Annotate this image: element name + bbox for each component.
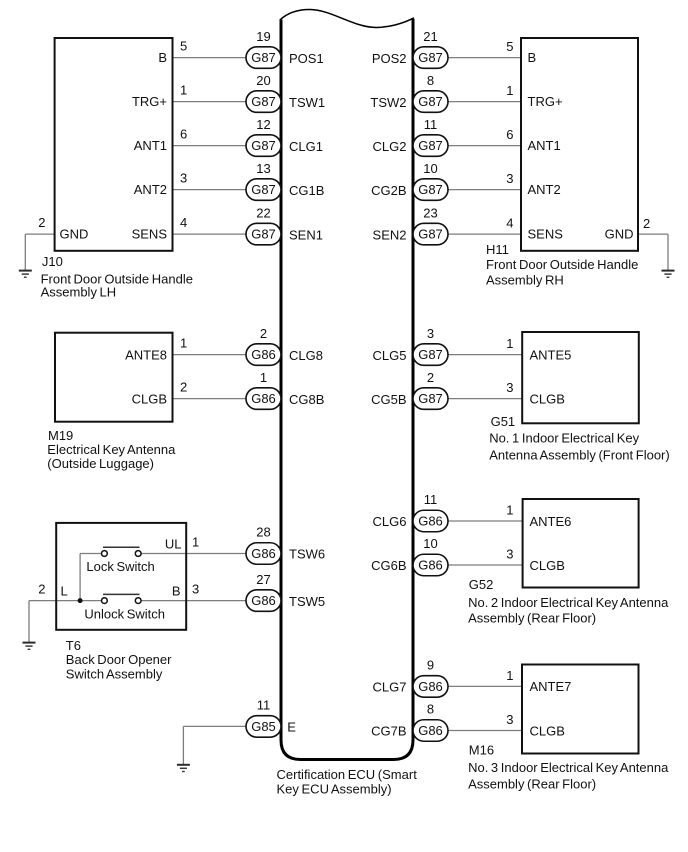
svg-text:G87: G87 xyxy=(251,94,276,109)
svg-text:1: 1 xyxy=(506,668,513,683)
svg-text:27: 27 xyxy=(256,572,270,587)
svg-text:Assembly (Rear Floor): Assembly (Rear Floor) xyxy=(468,611,596,626)
svg-text:Key ECU Assembly): Key ECU Assembly) xyxy=(277,782,392,797)
svg-text:G86: G86 xyxy=(251,391,276,406)
svg-text:H11: H11 xyxy=(486,242,509,257)
svg-text:3: 3 xyxy=(506,171,513,186)
svg-text:1: 1 xyxy=(260,370,267,385)
svg-text:G86: G86 xyxy=(251,347,276,362)
svg-text:13: 13 xyxy=(256,161,270,176)
svg-text:No. 1 Indoor Electrical Key: No. 1 Indoor Electrical Key xyxy=(489,431,639,446)
svg-text:G85: G85 xyxy=(251,719,276,734)
svg-text:Front Door Outside Handle: Front Door Outside Handle xyxy=(486,257,638,272)
svg-text:B: B xyxy=(158,50,167,65)
svg-text:TRG+: TRG+ xyxy=(132,94,167,109)
svg-text:1: 1 xyxy=(192,534,199,549)
svg-text:G87: G87 xyxy=(418,50,443,65)
svg-text:1: 1 xyxy=(506,503,513,518)
svg-text:2: 2 xyxy=(427,370,434,385)
svg-text:B: B xyxy=(172,584,181,599)
svg-text:POS2: POS2 xyxy=(372,51,407,66)
svg-text:28: 28 xyxy=(256,525,270,540)
svg-text:CLGB: CLGB xyxy=(132,391,167,406)
svg-text:Assembly (Rear Floor): Assembly (Rear Floor) xyxy=(468,777,596,792)
svg-text:3: 3 xyxy=(506,380,513,395)
svg-text:No. 2 Indoor Electrical Key An: No. 2 Indoor Electrical Key Antenna xyxy=(468,595,669,610)
svg-text:ANTE8: ANTE8 xyxy=(125,347,167,362)
svg-text:12: 12 xyxy=(256,117,270,132)
svg-text:G87: G87 xyxy=(418,138,443,153)
svg-text:CG7B: CG7B xyxy=(371,724,406,739)
svg-text:G87: G87 xyxy=(251,138,276,153)
svg-text:CLG8: CLG8 xyxy=(289,348,323,363)
svg-text:ANT1: ANT1 xyxy=(528,138,561,153)
svg-text:CLGB: CLGB xyxy=(530,391,565,406)
svg-text:ANT2: ANT2 xyxy=(134,182,167,197)
svg-text:6: 6 xyxy=(506,127,513,142)
svg-text:G86: G86 xyxy=(251,546,276,561)
svg-text:CLG7: CLG7 xyxy=(373,680,407,695)
svg-text:G87: G87 xyxy=(251,182,276,197)
svg-text:3: 3 xyxy=(506,547,513,562)
svg-text:TSW1: TSW1 xyxy=(289,95,325,110)
svg-text:E: E xyxy=(287,720,296,735)
svg-text:G86: G86 xyxy=(418,514,443,529)
svg-text:2: 2 xyxy=(260,326,267,341)
svg-text:TSW5: TSW5 xyxy=(289,594,325,609)
svg-text:9: 9 xyxy=(427,658,434,673)
svg-text:ANTE6: ANTE6 xyxy=(530,514,572,529)
svg-text:CLG1: CLG1 xyxy=(289,139,323,154)
svg-text:T6: T6 xyxy=(66,638,81,653)
svg-text:G86: G86 xyxy=(418,679,443,694)
svg-text:1: 1 xyxy=(180,82,187,97)
svg-text:TRG+: TRG+ xyxy=(528,94,563,109)
svg-text:6: 6 xyxy=(180,126,187,141)
svg-text:Lock Switch: Lock Switch xyxy=(86,559,154,574)
svg-text:CLGB: CLGB xyxy=(530,558,565,573)
svg-text:B: B xyxy=(528,50,537,65)
svg-text:8: 8 xyxy=(427,702,434,717)
svg-text:G51: G51 xyxy=(491,414,516,429)
svg-text:CLG6: CLG6 xyxy=(373,514,407,529)
svg-text:3: 3 xyxy=(506,712,513,727)
svg-text:Back Door Opener: Back Door Opener xyxy=(66,652,172,667)
svg-text:G87: G87 xyxy=(251,50,276,65)
svg-text:19: 19 xyxy=(256,29,270,44)
svg-text:ANTE7: ANTE7 xyxy=(530,679,572,694)
svg-text:UL: UL xyxy=(165,537,182,552)
svg-text:ANT1: ANT1 xyxy=(134,138,167,153)
svg-text:No. 3 Indoor Electrical Key An: No. 3 Indoor Electrical Key Antenna xyxy=(468,760,669,775)
svg-text:SENS: SENS xyxy=(528,227,564,242)
svg-text:G87: G87 xyxy=(418,94,443,109)
svg-text:ANT2: ANT2 xyxy=(528,182,561,197)
svg-text:GND: GND xyxy=(60,227,89,242)
svg-text:Assembly LH: Assembly LH xyxy=(41,284,117,299)
svg-text:2: 2 xyxy=(38,581,45,596)
svg-text:SEN1: SEN1 xyxy=(289,227,323,242)
svg-text:G52: G52 xyxy=(469,577,494,592)
svg-text:G87: G87 xyxy=(251,227,276,242)
svg-text:L: L xyxy=(61,584,68,599)
svg-text:CG2B: CG2B xyxy=(371,183,406,198)
svg-text:2: 2 xyxy=(643,216,650,231)
svg-text:CG8B: CG8B xyxy=(289,392,324,407)
svg-text:G87: G87 xyxy=(418,182,443,197)
svg-text:23: 23 xyxy=(423,205,437,220)
svg-text:11: 11 xyxy=(424,492,438,507)
svg-text:CG1B: CG1B xyxy=(289,183,324,198)
svg-text:G86: G86 xyxy=(418,723,443,738)
svg-text:3: 3 xyxy=(180,170,187,185)
svg-text:G87: G87 xyxy=(418,227,443,242)
svg-text:M16: M16 xyxy=(469,742,494,757)
svg-text:ANTE5: ANTE5 xyxy=(530,347,572,362)
svg-text:1: 1 xyxy=(506,83,513,98)
svg-text:Antenna Assembly (Front Floor): Antenna Assembly (Front Floor) xyxy=(489,447,670,462)
svg-text:CG5B: CG5B xyxy=(371,392,406,407)
svg-text:CG6B: CG6B xyxy=(371,558,406,573)
svg-text:Assembly RH: Assembly RH xyxy=(486,273,564,288)
svg-text:21: 21 xyxy=(423,29,437,44)
svg-text:4: 4 xyxy=(180,215,187,230)
svg-text:Switch Assembly: Switch Assembly xyxy=(66,666,163,681)
svg-text:10: 10 xyxy=(423,161,437,176)
svg-text:CLG5: CLG5 xyxy=(373,348,407,363)
svg-text:TSW2: TSW2 xyxy=(370,95,406,110)
svg-text:5: 5 xyxy=(180,38,187,53)
svg-text:G87: G87 xyxy=(418,347,443,362)
svg-text:2: 2 xyxy=(38,215,45,230)
svg-text:M19: M19 xyxy=(48,428,73,443)
svg-text:POS1: POS1 xyxy=(289,51,324,66)
svg-text:3: 3 xyxy=(192,581,199,596)
svg-text:8: 8 xyxy=(427,73,434,88)
svg-text:J10: J10 xyxy=(42,254,63,269)
svg-text:G86: G86 xyxy=(251,593,276,608)
svg-text:2: 2 xyxy=(180,379,187,394)
svg-text:5: 5 xyxy=(506,39,513,54)
svg-text:11: 11 xyxy=(424,117,438,132)
svg-text:3: 3 xyxy=(427,326,434,341)
svg-text:Unlock Switch: Unlock Switch xyxy=(84,607,165,622)
svg-text:1: 1 xyxy=(506,336,513,351)
svg-text:10: 10 xyxy=(423,536,437,551)
svg-text:22: 22 xyxy=(256,205,270,220)
svg-text:4: 4 xyxy=(506,216,513,231)
svg-text:GND: GND xyxy=(605,227,634,242)
svg-text:SEN2: SEN2 xyxy=(373,227,407,242)
svg-text:CLG2: CLG2 xyxy=(373,139,407,154)
svg-text:20: 20 xyxy=(256,73,270,88)
svg-text:CLGB: CLGB xyxy=(530,723,565,738)
svg-text:Certification ECU (Smart: Certification ECU (Smart xyxy=(277,767,418,782)
svg-text:1: 1 xyxy=(180,335,187,350)
svg-text:SENS: SENS xyxy=(132,227,168,242)
svg-text:G86: G86 xyxy=(418,558,443,573)
svg-text:11: 11 xyxy=(257,698,271,713)
svg-text:G87: G87 xyxy=(418,391,443,406)
svg-text:TSW6: TSW6 xyxy=(289,547,325,562)
svg-text:(Outside Luggage): (Outside Luggage) xyxy=(47,456,154,471)
